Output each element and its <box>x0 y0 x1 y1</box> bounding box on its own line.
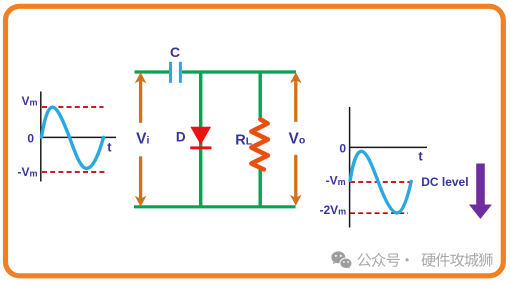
input -Vm dashed level line <box>42 171 106 173</box>
output waveform t-axis <box>349 146 427 148</box>
input waveform t-axis <box>40 136 116 138</box>
wire diode branch <box>199 72 202 207</box>
wire bottom rail <box>134 205 296 208</box>
capacitor C plates <box>169 62 182 83</box>
wire top left (input node to capacitor) <box>135 70 170 73</box>
output waveform y-axis <box>349 107 351 228</box>
input waveform y-axis <box>40 92 42 182</box>
svg-text:-2Vm: -2Vm <box>319 203 346 217</box>
Vi measurement arrow (double headed) <box>133 72 150 206</box>
input Vm dashed level line <box>42 106 104 108</box>
svg-text:-Vm: -Vm <box>326 173 346 187</box>
DC shift arrow (purple, down) <box>469 164 492 220</box>
svg-text:t: t <box>107 139 112 154</box>
Vo measurement arrow (double headed) <box>288 72 305 205</box>
wire top right (capacitor to output node) <box>182 70 296 73</box>
resistor RL zigzag <box>251 119 267 169</box>
diode D <box>190 127 211 149</box>
svg-text:RL: RL <box>235 132 252 148</box>
svg-text:0: 0 <box>27 131 34 145</box>
output -2Vm dashed level line <box>350 212 408 214</box>
svg-text:DC level: DC level <box>421 175 468 189</box>
output sine wave <box>350 151 411 213</box>
output -Vm dashed level line <box>350 181 412 183</box>
watermark wechat icon <box>331 251 352 269</box>
input sine wave <box>42 107 104 168</box>
svg-text:C: C <box>170 44 180 60</box>
svg-text:-Vm: -Vm <box>17 165 37 179</box>
svg-text:D: D <box>176 129 186 144</box>
svg-text:t: t <box>418 148 423 163</box>
watermark text 公众号·硬件攻城狮 (as paths) <box>357 253 492 267</box>
svg-text:Vm: Vm <box>21 94 37 108</box>
wire resistor branch top <box>259 72 262 120</box>
wire resistor branch bottom <box>259 170 262 207</box>
svg-text:0: 0 <box>339 142 346 156</box>
